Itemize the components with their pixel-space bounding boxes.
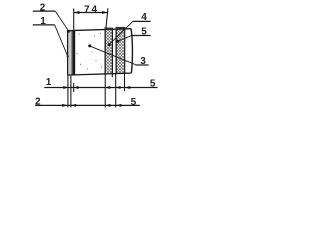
arrows on upper row: [63, 86, 68, 89]
layer 2 gray coating fill (left): [68, 30, 71, 75]
arrows on lower row: [62, 104, 67, 107]
right curved outline: [131, 28, 133, 73]
leader 1: [55, 25, 68, 56]
texture dots in body 3: [77, 33, 103, 70]
body left edge thick black band: [73, 30, 76, 75]
hatched strip 5 (layer B): [117, 29, 125, 73]
dimension line 2 / 5 (lower bottom row): [35, 104, 140, 106]
svg-text:1: 1: [46, 77, 52, 88]
dimension 74 (top): [73, 9, 75, 30]
leader 3: [90, 46, 136, 65]
leader 2: [55, 11, 69, 31]
extension lines below part (left group): [67, 76, 69, 108]
hatched strip 4 (layer A): [106, 29, 113, 73]
body 3 bottom outline: [67, 73, 131, 75]
svg-text:5: 5: [131, 97, 137, 108]
svg-text:2: 2: [35, 97, 41, 108]
leader 5: [118, 36, 132, 42]
extension lines below part (right group): [104, 74, 106, 108]
svg-text:5: 5: [150, 78, 156, 89]
layer 1 outer left line: [67, 30, 68, 75]
layer2/body boundary dark line: [71, 30, 72, 75]
svg-text:74: 74: [84, 5, 99, 16]
body 3 top outline: [67, 29, 131, 31]
leader 4: [109, 22, 133, 45]
dimension line 1 / 5 (upper bottom row): [44, 87, 157, 89]
